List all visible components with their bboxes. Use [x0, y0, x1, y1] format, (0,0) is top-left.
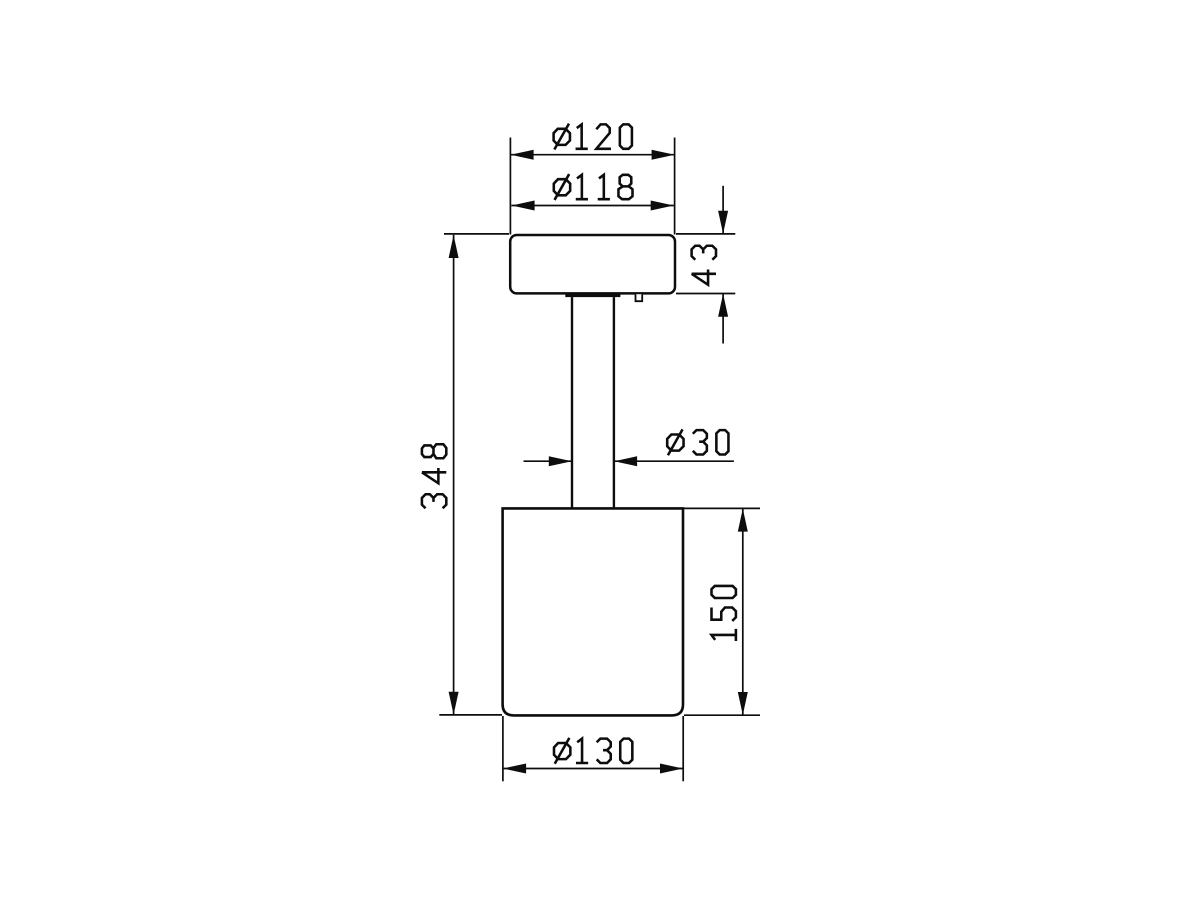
label 43 (rotated) — [692, 246, 716, 285]
dimension line Ø120 — [510, 154, 675, 156]
Ø130 left extension line — [502, 716, 504, 781]
dimension line Ø118 — [511, 205, 674, 207]
dimension line 43 upper segment — [722, 186, 724, 234]
arrow Ø120 left — [511, 150, 534, 160]
arrow Ø120 right — [652, 150, 675, 160]
arrow 348 bottom — [449, 692, 459, 715]
stem left edge — [571, 297, 573, 508]
label 348 (rotated) — [422, 444, 446, 508]
label 150 (rotated) — [712, 586, 736, 641]
label Ø130 — [554, 738, 632, 764]
label Ø118 — [554, 174, 633, 200]
arrow 348 top — [449, 235, 459, 258]
extension line left of Ø120/Ø118 — [509, 138, 511, 235]
arrow Ø118 left — [512, 201, 535, 211]
arrow Ø130 right — [660, 764, 683, 774]
150 bottom extension line — [684, 714, 760, 716]
label Ø30 — [667, 429, 728, 455]
arrow 150 bottom — [738, 692, 748, 715]
dimension line Ø130 — [503, 768, 683, 770]
arrow Ø30 right (pointing left) — [614, 456, 637, 466]
348 bottom extension line — [439, 714, 502, 716]
Ø130 right extension line — [682, 716, 684, 781]
43 top extension line — [676, 233, 735, 235]
arrow Ø118 right — [651, 201, 674, 211]
lamp body outline — [503, 508, 683, 715]
arrow 43 bottom (pointing up) — [718, 294, 728, 317]
43 bottom extension line — [676, 293, 735, 295]
arrow 150 top — [738, 509, 748, 532]
348 top extension line — [444, 233, 509, 235]
extension line right of Ø120/Ø118 — [674, 138, 676, 235]
dimension line 348 — [453, 235, 455, 715]
arrow Ø30 left (pointing right) — [549, 456, 572, 466]
arrow Ø130 left — [503, 764, 526, 774]
dimension line 150 — [742, 509, 744, 715]
switch notch on cap underside — [636, 294, 643, 301]
dimension line 43 lower segment — [722, 294, 724, 344]
150 top extension line — [684, 507, 760, 509]
arrow 43 top (pointing down) — [718, 211, 728, 234]
dimension line Ø30 right segment — [614, 460, 734, 462]
dimension line Ø30 left segment — [524, 460, 573, 462]
stem right edge — [613, 297, 615, 508]
lamp top cap outline — [510, 235, 675, 293]
label Ø120 — [554, 124, 632, 150]
collar bar under cap — [565, 294, 620, 298]
